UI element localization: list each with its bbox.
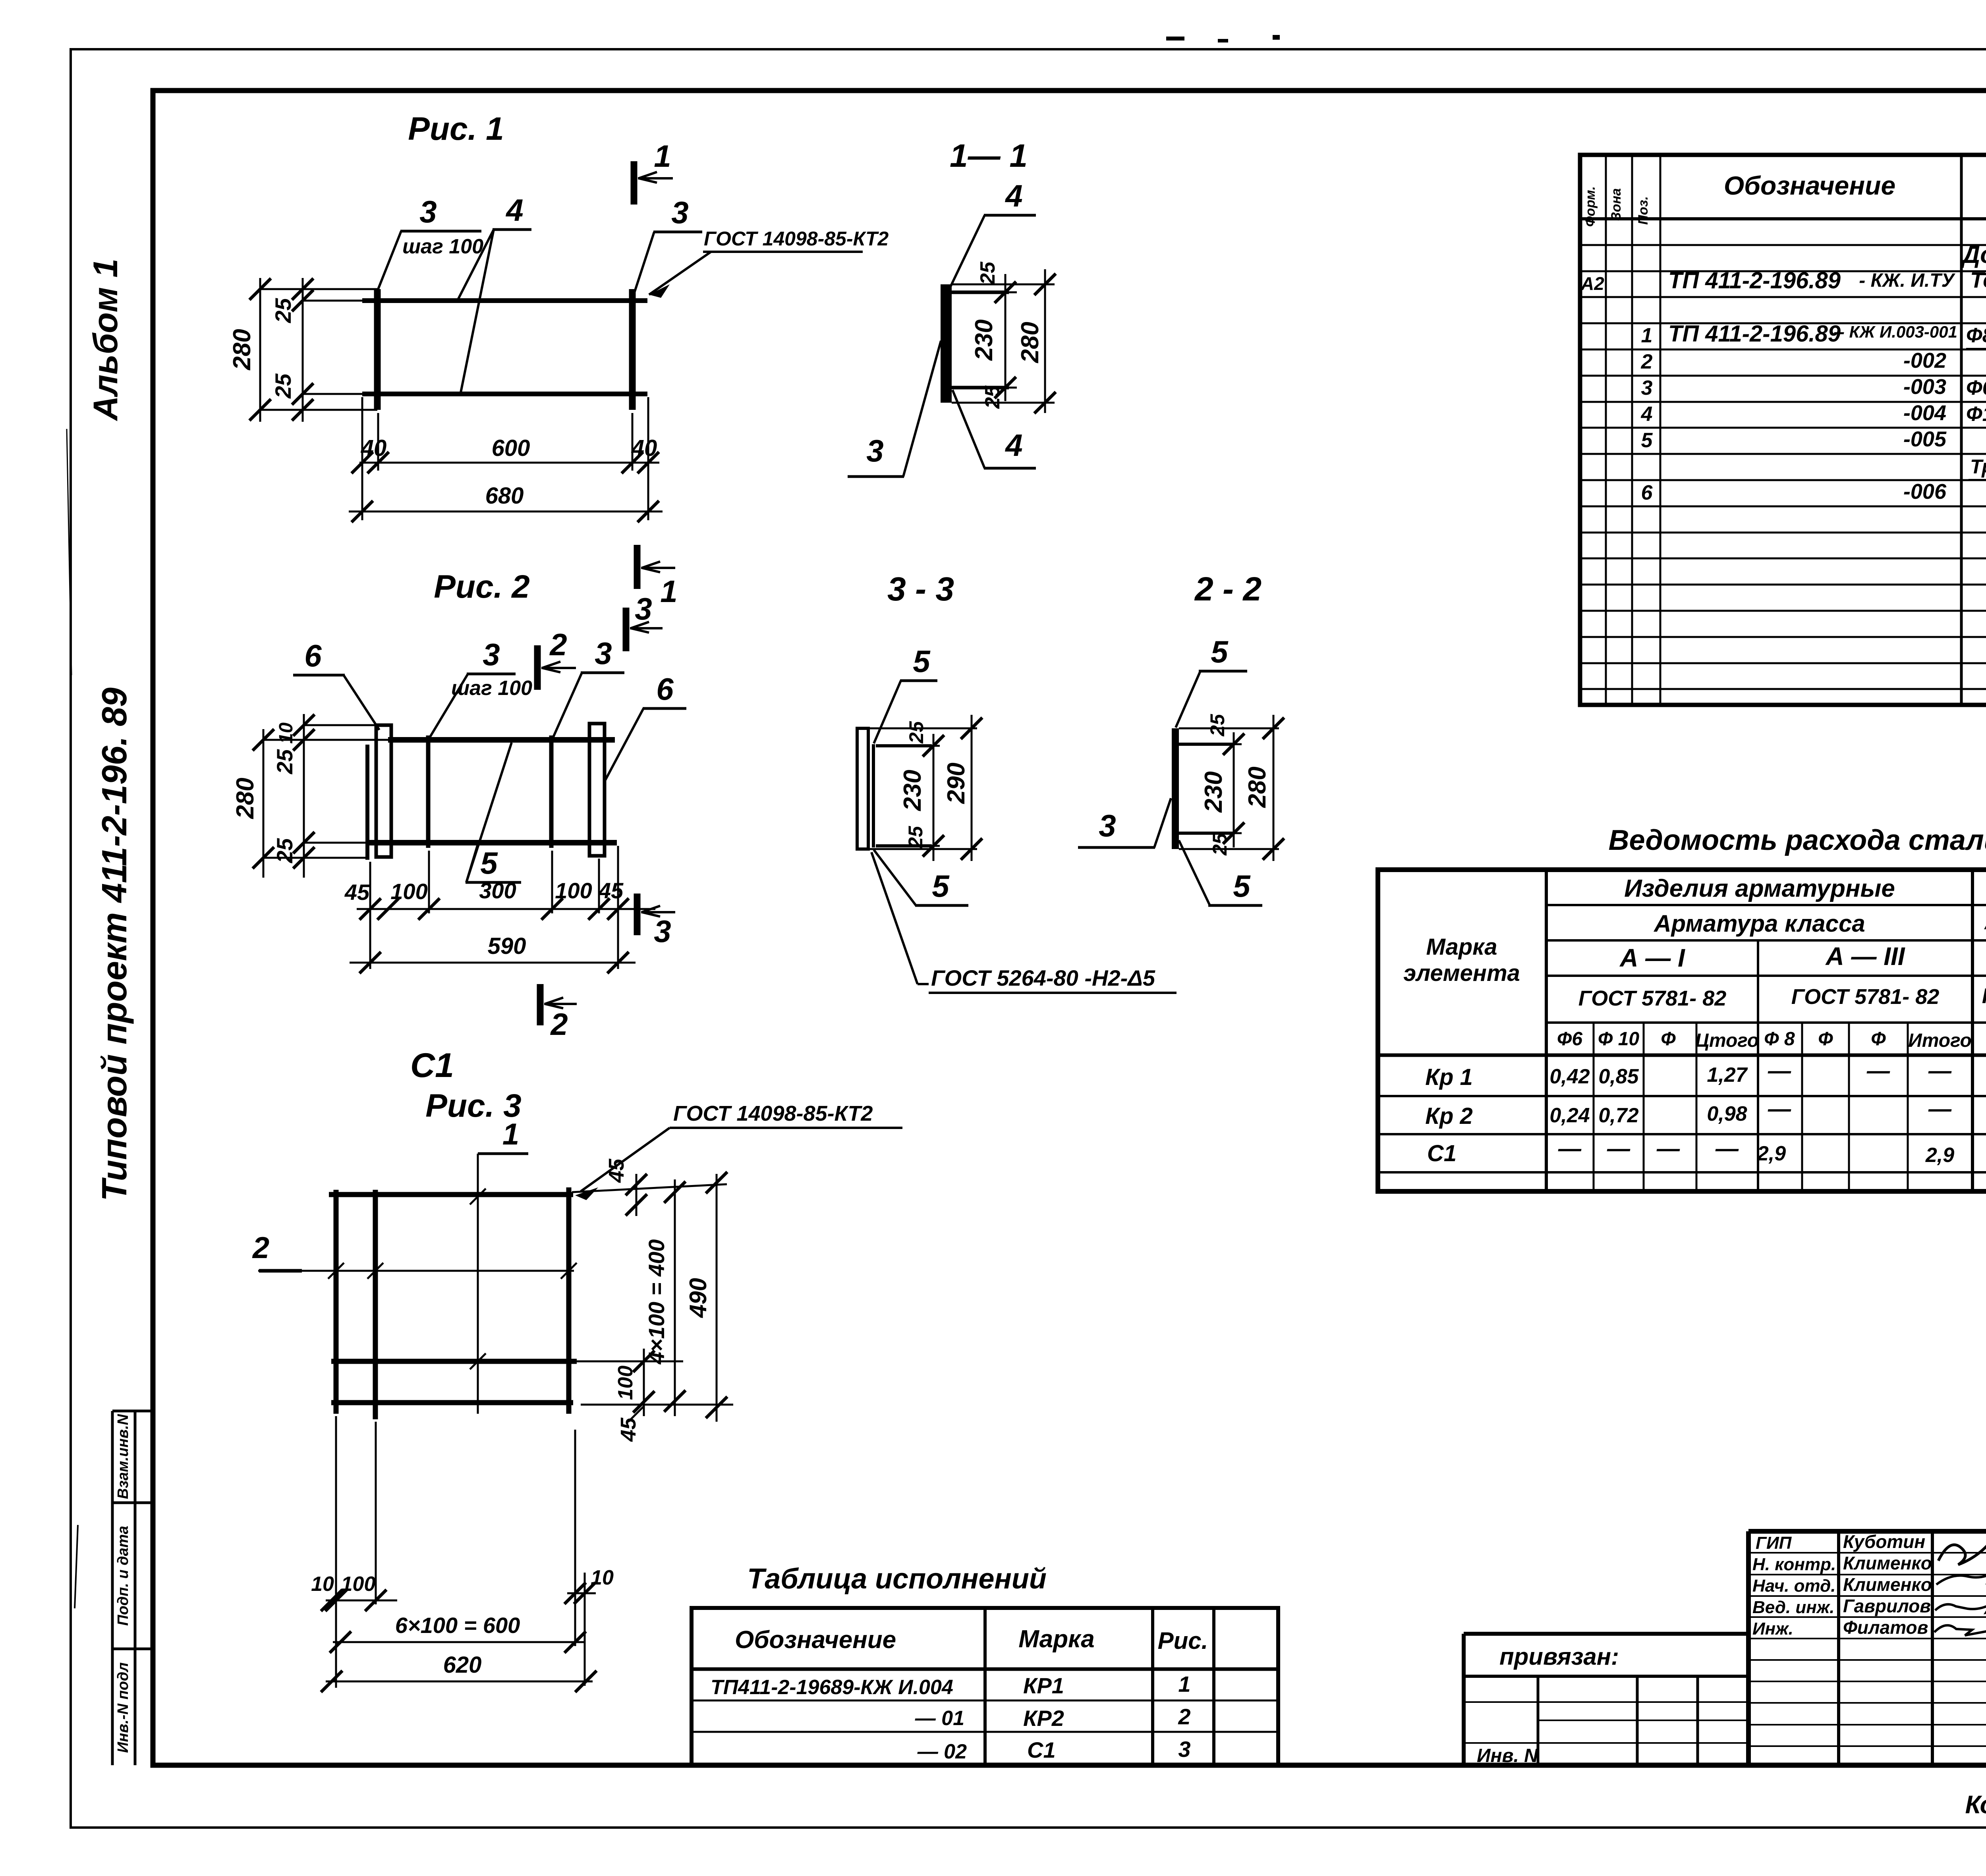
svg-text:Куботин: Куботин	[1843, 1531, 1925, 1552]
fig3 dim 490 right	[716, 1174, 718, 1422]
svg-text:Копировал Краснова: Копировал Краснова	[1965, 1790, 1986, 1819]
execution table header separator	[692, 1668, 1278, 1671]
sec2-2 extension lines	[1179, 728, 1279, 730]
svg-text:Рис.: Рис.	[1158, 1627, 1208, 1654]
fig3 dim 620 total	[326, 1681, 593, 1683]
svg-text:Ф10АI ГОСТ5781- 82 ℓ= 880: Ф10АI ГОСТ5781- 82 ℓ= 880	[1966, 403, 1986, 426]
svg-text:3 - 3: 3 - 3	[887, 570, 954, 608]
svg-text:40: 40	[361, 435, 387, 461]
svg-text:Марка: Марка	[1018, 1625, 1094, 1653]
fig3 bottom dims 10 100	[326, 1600, 397, 1602]
svg-text:100: 100	[614, 1366, 637, 1400]
steel table header horizontal lines	[1546, 904, 1986, 906]
svg-text:3: 3	[419, 194, 437, 229]
svg-text:45: 45	[605, 1158, 628, 1183]
fig1 dim 25 top and bottom left	[302, 278, 304, 422]
steel table outer border	[1378, 870, 1986, 1191]
fig3 top horizontal wire 1	[329, 1192, 573, 1197]
svg-text:Взам.инв.N: Взам.инв.N	[115, 1414, 131, 1499]
fig2 left tube 6	[376, 725, 391, 857]
svg-text:0,42: 0,42	[1549, 1065, 1590, 1088]
svg-text:280: 280	[1016, 322, 1044, 363]
svg-text:6: 6	[1641, 481, 1653, 504]
spec table header row lines	[1580, 217, 1986, 220]
svg-text:280: 280	[228, 329, 256, 370]
svg-text:280: 280	[232, 778, 259, 819]
svg-text:Н. контр.: Н. контр.	[1752, 1555, 1836, 1574]
svg-text:Клименко: Клименко	[1843, 1574, 1932, 1595]
svg-text:6×100 = 600: 6×100 = 600	[395, 1613, 520, 1638]
svg-text:0,85: 0,85	[1598, 1065, 1639, 1088]
svg-text:-005: -005	[1903, 427, 1947, 451]
svg-text:Арматура класса: Арматура класса	[1653, 910, 1865, 937]
svg-text:Ф: Ф	[1661, 1029, 1676, 1050]
svg-text:Кр 2: Кр 2	[1425, 1103, 1472, 1129]
sec1-1 plate 3 (filled bar)	[941, 284, 952, 403]
svg-text:Форм.: Форм.	[1583, 186, 1598, 227]
fig2 section marker 3 right-top	[623, 608, 630, 651]
svg-text:5: 5	[913, 644, 931, 679]
svg-text:3: 3	[635, 591, 652, 626]
svg-text:45: 45	[344, 880, 370, 905]
svg-text:-003: -003	[1903, 375, 1946, 399]
svg-text:—: —	[1928, 1058, 1952, 1084]
svg-text:Гаврилов: Гаврилов	[1843, 1596, 1931, 1616]
svg-text:2: 2	[550, 1007, 568, 1042]
top edge scan specks	[1166, 37, 1184, 41]
svg-text:Поз.: Поз.	[1636, 196, 1651, 225]
svg-text:привязан:: привязан:	[1499, 1643, 1619, 1670]
fig2 bottom extension lines	[369, 862, 371, 969]
svg-text:100: 100	[555, 878, 592, 903]
svg-text:—: —	[1656, 1136, 1680, 1162]
svg-text:1: 1	[1641, 324, 1653, 347]
svg-text:—: —	[1607, 1136, 1631, 1162]
sec1-1 top wire 4 line	[952, 291, 1009, 294]
svg-text:Зона: Зона	[1609, 188, 1624, 221]
svg-text:— 01: — 01	[915, 1707, 964, 1730]
svg-text:1: 1	[654, 139, 671, 174]
sec2-2 plate 3 (filled)	[1172, 728, 1179, 849]
fig1 dim 680 total	[349, 511, 663, 513]
svg-text:2: 2	[1178, 1704, 1190, 1729]
svg-text:Ф: Ф	[1818, 1029, 1833, 1050]
svg-text:4: 4	[1005, 428, 1022, 463]
steel table main vertical lines	[1545, 870, 1548, 1191]
execution table column lines	[983, 1608, 987, 1765]
sec1-1 dim 280	[1044, 269, 1046, 413]
svg-text:1: 1	[502, 1117, 519, 1151]
svg-text:3: 3	[671, 195, 688, 230]
fig1 right vertical wire 3	[629, 289, 636, 410]
svg-text:-002: -002	[1903, 349, 1946, 372]
svg-text:ГОСТ 5264-80 -Н2-Δ5: ГОСТ 5264-80 -Н2-Δ5	[931, 965, 1155, 990]
svg-text:— 02: — 02	[917, 1740, 967, 1763]
fig1 section marker 1 top	[631, 161, 638, 205]
svg-text:ГИП: ГИП	[1756, 1533, 1792, 1553]
svg-text:40: 40	[631, 435, 657, 461]
title block outline	[1748, 1529, 1986, 1534]
svg-text:0,72: 0,72	[1598, 1104, 1638, 1127]
svg-text:Рис. 1: Рис. 1	[408, 111, 504, 147]
svg-text:600: 600	[492, 435, 530, 461]
svg-text:2: 2	[1641, 350, 1653, 373]
svg-text:1— 1: 1— 1	[950, 138, 1028, 174]
svg-text:25: 25	[272, 838, 297, 863]
svg-text:Рис. 2: Рис. 2	[434, 569, 530, 605]
svg-text:620: 620	[443, 1652, 482, 1678]
svg-text:ТП 411-2-196.89: ТП 411-2-196.89	[1668, 321, 1841, 347]
svg-text:230: 230	[1200, 771, 1227, 813]
title block staff row lines	[1748, 1552, 1986, 1554]
fig2 section marker 3 right-bottom	[634, 894, 641, 935]
svg-text:Марка: Марка	[1426, 934, 1497, 960]
svg-text:А — I: А — I	[1619, 944, 1685, 972]
svg-text:Технические условия: Технические условия	[1970, 267, 1986, 292]
svg-text:Итого: Итого	[1908, 1030, 1972, 1051]
svg-text:290: 290	[943, 762, 970, 804]
svg-text:25: 25	[904, 826, 927, 849]
fig1 bottom extension lines	[361, 397, 363, 520]
execution table row lines	[692, 1700, 1278, 1702]
fig3 section marker 1 top	[478, 1152, 528, 1155]
svg-text:230: 230	[899, 770, 926, 811]
fig2 bottom bar wire 5	[365, 840, 617, 845]
fig2 dim 590 total	[350, 962, 636, 964]
fig1 top bar wire 4	[362, 298, 647, 303]
svg-text:3: 3	[654, 914, 671, 949]
fig2 top bar wire 5	[388, 737, 615, 743]
svg-text:КР1: КР1	[1023, 1673, 1064, 1698]
left margin scan squiggle	[75, 1525, 78, 1608]
fig1 dim 280 left	[259, 278, 261, 422]
svg-text:—: —	[1715, 1136, 1739, 1162]
svg-text:Вед. инж.: Вед. инж.	[1752, 1598, 1835, 1617]
svg-text:2,9: 2,9	[1925, 1144, 1954, 1167]
fig2 dim 280 left	[263, 729, 265, 878]
svg-text:С1: С1	[1427, 1141, 1457, 1166]
svg-text:КР2: КР2	[1023, 1706, 1064, 1731]
sec3-3 top wire 5	[876, 744, 932, 747]
svg-text:2,9: 2,9	[1757, 1142, 1786, 1165]
svg-text:- КЖ. И.ТУ: - КЖ. И.ТУ	[1859, 270, 1955, 291]
svg-text:Изделия арматурные: Изделия арматурные	[1624, 875, 1895, 902]
fig3 section line 1 vertical	[477, 1154, 479, 1414]
svg-text:ТП 411-2-196.89: ТП 411-2-196.89	[1668, 268, 1841, 293]
fig2 section marker 2 bottom	[537, 984, 544, 1025]
fig1 section marker 1 bottom	[634, 545, 641, 589]
svg-text:Ф6АI ГОСТ 5781-82, ℓ= 280: Ф6АI ГОСТ 5781-82, ℓ= 280	[1966, 376, 1986, 400]
svg-text:6: 6	[656, 672, 674, 706]
svg-text:3: 3	[866, 433, 883, 468]
svg-text:Труба 20×2,5 ГОСТ 3862-75: Труба 20×2,5 ГОСТ 3862-75	[1970, 455, 1986, 478]
svg-text:25: 25	[272, 749, 297, 774]
sec3-3 weld leader to ГОСТ 5264-80	[871, 852, 918, 984]
svg-text:А2: А2	[1580, 273, 1604, 294]
svg-text:2 - 2: 2 - 2	[1194, 570, 1262, 608]
fig3 vertical wire 2 second	[373, 1190, 378, 1419]
svg-text:ТП411-2-19689-КЖ И.004: ТП411-2-19689-КЖ И.004	[711, 1676, 953, 1699]
sec3-3 bottom wire 5	[876, 844, 932, 847]
fig3 dim 6x100=600	[333, 1641, 584, 1643]
svg-text:элемента: элемента	[1403, 960, 1520, 986]
fig3 dim 45 top right	[636, 1174, 638, 1216]
svg-text:10: 10	[591, 1566, 614, 1589]
svg-text:25: 25	[270, 373, 296, 399]
sec3-3 wire line inner	[872, 744, 875, 847]
spec table outer border	[1580, 155, 1986, 705]
svg-text:Клименко: Клименко	[1843, 1553, 1932, 1573]
svg-text:3: 3	[1099, 808, 1116, 843]
fig1 left vertical wire 3	[374, 289, 381, 410]
svg-text:5: 5	[932, 869, 950, 903]
fig3 right extension lines	[572, 1184, 727, 1192]
svg-text:25: 25	[905, 721, 927, 744]
sec1-1 extension lines	[952, 284, 1055, 286]
svg-text:Альбом 1: Альбом 1	[87, 259, 125, 421]
svg-text:Обозначение: Обозначение	[735, 1626, 896, 1654]
sec2-2 top wire 5	[1179, 743, 1234, 746]
fig2 section marker 2 top	[534, 645, 541, 690]
execution table outer border	[692, 1608, 1278, 1765]
svg-text:0,24: 0,24	[1549, 1104, 1590, 1127]
svg-text:10: 10	[311, 1573, 334, 1596]
svg-text:Таблица исполнений: Таблица исполнений	[747, 1563, 1047, 1595]
svg-text:Инж.: Инж.	[1752, 1619, 1793, 1639]
fig3 bottom extension lines	[335, 1416, 337, 1688]
fig2 vertical wire 3 second	[426, 735, 431, 848]
fig3 dim 4x100=400 right	[674, 1179, 676, 1416]
svg-text:Ф8АIII ГОСТ5781-82, ℓ= 490: Ф8АIII ГОСТ5781-82, ℓ= 490	[1966, 324, 1986, 347]
svg-text:—: —	[1558, 1136, 1582, 1162]
fig1 bottom bar wire 4	[362, 392, 647, 396]
svg-text:Инв. N: Инв. N	[1477, 1745, 1538, 1766]
svg-text:1: 1	[660, 574, 677, 609]
svg-text:ГОСТ 14098-85-КТ2: ГОСТ 14098-85-КТ2	[673, 1102, 873, 1125]
svg-text:шаг 100: шаг 100	[402, 235, 483, 258]
svg-text:Нач. отд.: Нач. отд.	[1752, 1576, 1836, 1596]
svg-text:—: —	[1768, 1058, 1791, 1084]
svg-text:25: 25	[981, 385, 1004, 409]
svg-text:680: 680	[485, 483, 524, 509]
svg-text:3: 3	[483, 637, 500, 672]
left margin bottom stamp boxes	[111, 1411, 114, 1765]
svg-text:1: 1	[1178, 1671, 1190, 1697]
svg-text:2: 2	[252, 1231, 269, 1265]
fig3 section line 2 horizontal with label	[258, 1270, 574, 1272]
svg-text:шаг 100: шаг 100	[451, 677, 532, 700]
svg-text:Ф 10: Ф 10	[1598, 1029, 1640, 1050]
svg-text:590: 590	[488, 933, 526, 959]
title block staff column lines	[1837, 1531, 1840, 1765]
spec table rows	[1580, 244, 1986, 246]
fig2 right tube 6	[589, 724, 605, 856]
svg-text:С1: С1	[410, 1046, 454, 1085]
fig2 dims 10 25 25 left	[303, 714, 305, 878]
fig1 left extension lines	[260, 288, 377, 290]
svg-text:С1: С1	[1027, 1737, 1056, 1762]
svg-text:А — III: А — III	[1825, 942, 1905, 971]
svg-text:4: 4	[505, 193, 523, 228]
steel table data row lines	[1378, 1095, 1986, 1097]
fig3 dim 100 right	[643, 1349, 645, 1416]
svg-text:-006: -006	[1903, 480, 1947, 504]
svg-text:2: 2	[549, 627, 567, 662]
svg-text:280: 280	[1244, 766, 1271, 808]
svg-text:Подп. и дата: Подп. и дата	[115, 1526, 131, 1626]
svg-text:5: 5	[1233, 869, 1251, 903]
svg-text:5: 5	[1211, 634, 1229, 669]
svg-text:—: —	[1866, 1058, 1890, 1084]
svg-text:100: 100	[390, 879, 427, 904]
svg-text:ГОСТ 5781- 82: ГОСТ 5781- 82	[1982, 984, 1986, 1008]
svg-text:Инв.-N подл: Инв.-N подл	[115, 1662, 131, 1753]
svg-text:4×100 = 400: 4×100 = 400	[644, 1239, 669, 1365]
привязан box	[1464, 1632, 1748, 1636]
sec3-3 tube plate 6 outline	[857, 728, 868, 849]
svg-text:ГОСТ 14098-85-КТ2: ГОСТ 14098-85-КТ2	[704, 228, 889, 250]
svg-text:—: —	[1768, 1096, 1791, 1122]
svg-text:Ф: Ф	[1871, 1029, 1886, 1050]
svg-text:5: 5	[480, 845, 498, 880]
svg-text:0,98: 0,98	[1707, 1102, 1747, 1125]
sec2-2 dim 280	[1273, 715, 1275, 861]
svg-text:-- КЖ И.003-001: -- КЖ И.003-001	[1833, 322, 1957, 341]
svg-text:Ф 8: Ф 8	[1764, 1029, 1795, 1050]
svg-text:4: 4	[1641, 403, 1653, 426]
svg-text:ГОСТ 5781- 82: ГОСТ 5781- 82	[1791, 985, 1940, 1009]
fig2 vertical wire 3 third	[549, 735, 554, 848]
svg-text:490: 490	[685, 1278, 711, 1318]
svg-text:6: 6	[304, 638, 322, 673]
svg-text:1,27: 1,27	[1707, 1063, 1748, 1087]
spec table column lines	[1605, 155, 1607, 705]
svg-text:Документация: Документация	[1960, 241, 1986, 268]
sec3-3 dim 290	[971, 715, 973, 861]
fig3 vertical wire 2 left	[334, 1190, 339, 1414]
sec3-3 dim 230	[933, 734, 935, 861]
fig1 dim 40 600 40	[359, 462, 659, 464]
svg-text:300: 300	[479, 878, 516, 903]
svg-text:Кр 1: Кр 1	[1425, 1064, 1472, 1090]
fig3 section line tick marks	[328, 1263, 344, 1279]
svg-text:25: 25	[976, 261, 999, 285]
sec2-2 dim 230	[1233, 732, 1235, 847]
svg-text:25: 25	[1209, 833, 1231, 856]
svg-text:3: 3	[595, 636, 612, 671]
svg-text:25: 25	[270, 298, 296, 323]
fig3 vertical wire 2 right	[566, 1187, 572, 1414]
sec1-1 bottom wire 4 line	[952, 386, 1009, 390]
fig2 left extension lines	[304, 724, 377, 726]
fig3 bottom dim 10 right	[567, 1592, 596, 1594]
svg-text:Ф6: Ф6	[1557, 1029, 1582, 1050]
svg-text:ГОСТ 5781- 82: ГОСТ 5781- 82	[1578, 986, 1727, 1010]
svg-text:45: 45	[598, 878, 624, 903]
sec3-3 extension lines	[868, 728, 977, 730]
sec1-1 dim 230	[1005, 274, 1007, 401]
svg-text:Обозначение: Обозначение	[1724, 171, 1895, 200]
svg-text:Цтого: Цтого	[1695, 1030, 1759, 1051]
fig2 dim 45 100 300 100 45	[357, 908, 655, 910]
svg-text:—: —	[1928, 1096, 1952, 1122]
svg-text:Филатов: Филатов	[1843, 1617, 1928, 1638]
svg-text:Ведомость расхода стали на эле: Ведомость расхода стали на элемент, кг	[1608, 824, 1986, 856]
svg-text:230: 230	[970, 319, 998, 361]
signature squiggles	[1938, 1545, 1986, 1565]
svg-text:3: 3	[1641, 376, 1653, 400]
fig3 bottom horizontal wire 1	[331, 1400, 573, 1405]
svg-text:Типовой проект 411-2-196. 89: Типовой проект 411-2-196. 89	[95, 687, 134, 1201]
svg-text:25: 25	[1206, 714, 1229, 737]
svg-text:-004: -004	[1903, 401, 1946, 425]
svg-text:3: 3	[1178, 1737, 1190, 1762]
fig2 left thin vertical wire 3	[365, 745, 369, 860]
svg-text:4: 4	[1005, 178, 1022, 213]
sec2-2 bottom wire 5	[1179, 832, 1234, 835]
fig3 middle horizontal wire 1	[331, 1359, 577, 1364]
svg-text:100: 100	[341, 1573, 376, 1596]
svg-text:5: 5	[1641, 429, 1653, 452]
